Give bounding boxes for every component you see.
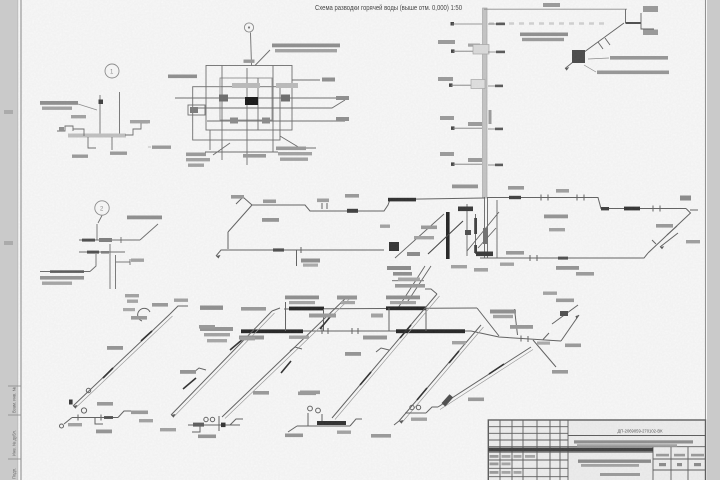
pipe line bottom — [207, 120, 305, 122]
note text right of valve row2 — [597, 71, 669, 75]
diagonal c — [467, 212, 499, 251]
towel rail zigzag left — [57, 126, 73, 131]
label cluster below row2 — [393, 272, 412, 276]
stamp vertical main divider — [567, 420, 569, 480]
D3 mid fixture hook — [376, 348, 389, 352]
vertical pipe left of bar — [466, 204, 468, 256]
stamp vertical v3 — [522, 420, 524, 480]
D1 mid label d15 — [107, 346, 123, 350]
D1 top hook — [170, 306, 188, 314]
valve blob on bottom run — [273, 248, 284, 251]
wire: row2 extension right — [471, 331, 561, 341]
D4 mid label — [468, 398, 484, 402]
label fork top — [643, 6, 658, 12]
mini grid label stadia — [656, 454, 669, 457]
fixture group F3 — [288, 406, 362, 432]
fitting blob top — [458, 207, 473, 212]
left margin stamp mark lower — [4, 241, 13, 245]
lower stub — [88, 137, 96, 148]
F4 short line — [405, 412, 426, 414]
connection elbow — [73, 129, 84, 136]
branch floor3 — [438, 77, 503, 89]
valve left blob — [219, 95, 228, 102]
riser mid annotation — [489, 110, 492, 124]
wire: row2 header line — [241, 330, 471, 332]
label bottom right rows — [276, 147, 306, 151]
label branch down — [552, 370, 568, 374]
F3 circles — [308, 406, 313, 411]
node marker circle 2 (basement branch) — [95, 201, 109, 215]
F1 left elbow — [64, 418, 72, 425]
label d20 mid top run — [317, 199, 329, 203]
bypass rectangle — [220, 78, 272, 120]
row1 left text b — [241, 307, 266, 311]
left text block r2 — [204, 333, 230, 336]
dark run row2 right — [396, 329, 465, 333]
wire: fork branch stub — [641, 23, 654, 29]
branch floor4 — [438, 40, 505, 54]
D1 curl fixture — [138, 308, 150, 321]
label cluster inner small — [451, 265, 467, 268]
dark fitting square left — [389, 242, 399, 251]
right outlet leader 2 — [300, 100, 345, 108]
row2 label below left — [240, 337, 255, 340]
F3 branch line — [297, 425, 350, 427]
wire: top-left hook — [236, 197, 252, 205]
D4 arrowhead — [399, 420, 404, 424]
label above right run a — [508, 186, 524, 190]
vertical riser v2 between rows — [323, 309, 325, 331]
valve right blob — [281, 95, 290, 102]
stamp left cell entries row a — [490, 455, 499, 458]
towel rail detail — [57, 92, 148, 150]
label above unit top edge — [244, 60, 255, 63]
mini grid value stadia — [659, 463, 666, 466]
stamp object name row2 — [577, 444, 677, 447]
right mid diag label — [556, 299, 574, 303]
D1 arrowhead — [73, 405, 78, 409]
fixture group F4 — [394, 405, 438, 425]
dashed level line — [489, 22, 607, 25]
wire: long diagonal to mixer — [576, 23, 624, 58]
D2b dark runs — [281, 317, 330, 373]
label St V1-6 — [576, 272, 594, 276]
mini grid value list — [677, 463, 682, 466]
wire: top right corner drop — [625, 9, 627, 23]
label under floor right — [110, 152, 127, 155]
long branch diagonal D3 — [332, 294, 437, 418]
stamp object name row1 — [574, 440, 693, 443]
riser double vertical — [109, 244, 111, 289]
label d15 top-left hook — [231, 195, 244, 199]
D1 inner label — [97, 402, 113, 406]
fixture group F2 — [188, 416, 243, 432]
right outlet leader 3 — [305, 120, 345, 122]
F1 branch line — [72, 417, 118, 419]
svg-text:Взам. инв. №: Взам. инв. № — [12, 387, 17, 413]
D4 dark runs — [417, 351, 459, 400]
tick diag right — [652, 240, 656, 244]
vertical pipe right pair — [496, 200, 498, 258]
bottom diagonal leader — [213, 143, 230, 155]
stamp header dark band — [488, 448, 653, 452]
leader far right — [148, 146, 151, 148]
row1 label middle — [337, 296, 357, 300]
mini grid label list — [674, 454, 685, 457]
tick pair on top run — [321, 203, 323, 209]
F3 vertical — [307, 413, 309, 426]
D2 top hook — [272, 308, 280, 311]
leader from circle — [98, 216, 102, 224]
bottom inner line — [205, 151, 278, 153]
F1 blob — [104, 416, 113, 419]
wire: row1 right drop diagonal — [477, 308, 499, 336]
dark run at step-up — [388, 198, 416, 202]
riser St T3-1 double line — [483, 8, 488, 198]
F1 sub stub — [95, 418, 103, 425]
blobs on right mid diagonal — [560, 311, 568, 316]
F2 branch line — [188, 424, 240, 426]
tick pair row2 middle — [321, 328, 323, 334]
note polotencesushitel row2 — [42, 107, 72, 110]
extension label d40 — [565, 344, 581, 348]
dark run row2 left — [241, 329, 303, 333]
vertical pipe a — [221, 66, 223, 161]
water meter unit detail — [175, 33, 345, 166]
wire: left loop bottom run — [216, 250, 384, 256]
vertical pipe b — [246, 68, 248, 165]
stamp left cell entries row b — [490, 463, 499, 466]
D2 top label — [199, 325, 215, 329]
row1 left text a — [200, 306, 223, 310]
wire: fork dark horizontal — [626, 22, 642, 24]
far right label — [686, 240, 700, 243]
F4 label b — [411, 418, 427, 421]
right scan margin strip — [707, 0, 720, 480]
wire: left loop diagonal — [228, 205, 252, 232]
valve blob on diagonal — [572, 50, 585, 63]
F3 zigzag — [350, 419, 362, 426]
stamp horizontal h3 — [488, 439, 568, 441]
label cluster below row3 — [398, 278, 420, 281]
between-row text a — [309, 314, 336, 318]
D3 low label — [298, 392, 316, 396]
F2 lower stub — [192, 425, 200, 432]
label d25 above valve — [345, 194, 359, 198]
F2 zigzag — [230, 419, 243, 425]
bottom stub left — [209, 130, 211, 150]
wire: left loop vertical — [227, 232, 229, 249]
wire: right rising arrow branch — [561, 315, 579, 341]
D1 hook curve label — [174, 299, 188, 302]
between-row text b — [371, 314, 383, 318]
upper branch line — [79, 239, 140, 241]
label below supply row2 — [42, 282, 72, 285]
label step right — [130, 120, 150, 123]
below row2 text b — [289, 336, 309, 339]
lower branch line — [79, 251, 125, 253]
stamp horizontal h7 left — [488, 467, 568, 469]
label d50 right mid — [336, 96, 349, 100]
stamp vertical v2 — [511, 420, 513, 480]
label below riser pair — [125, 294, 139, 297]
F3 vertical b — [321, 414, 323, 421]
note: water meter title row2 — [275, 49, 337, 52]
F3 label b — [300, 391, 320, 395]
outer rectangle — [206, 66, 292, 131]
label above right run b — [556, 189, 569, 193]
stamp vertical v4 — [536, 420, 538, 480]
note text podvodka upper row — [520, 33, 568, 37]
vertical riser v1 between rows — [285, 302, 287, 331]
F1 label d — [139, 419, 153, 422]
thick dark riser bar — [446, 212, 450, 259]
F1 dark square — [69, 400, 73, 405]
vertical pipe x475 — [475, 214, 477, 254]
St V1-5 riser stub — [515, 309, 518, 335]
dark runs on lower shelf — [601, 207, 609, 210]
right sheet frame line — [705, 0, 707, 480]
label small d15 — [131, 259, 144, 262]
F1 label a — [96, 430, 112, 434]
dark valve square — [99, 100, 104, 105]
side stub — [116, 261, 131, 263]
stamp horizontal h1 — [488, 426, 568, 428]
D4 upper label — [452, 341, 466, 344]
D2b mid fixture hook — [290, 347, 302, 351]
diagonal d short — [478, 228, 496, 248]
label St V1-2 under bottom run — [301, 259, 320, 263]
long branch diagonal D2 — [171, 311, 272, 415]
F1 label c — [131, 411, 148, 415]
stamp vertical v1 — [499, 420, 501, 480]
right stepped pipe — [125, 123, 148, 135]
F3 label a — [285, 434, 303, 438]
mini grid vertical c — [687, 447, 689, 480]
label far right — [152, 146, 171, 149]
left frame divider ticks — [8, 385, 21, 387]
left text block r3 — [207, 339, 227, 342]
label cluster above — [452, 185, 478, 189]
note text right of valve row1 — [610, 56, 668, 60]
label cluster bottom row — [395, 284, 425, 288]
valve blob right top run — [509, 196, 521, 199]
label on extension — [510, 325, 533, 329]
tick on diagonal — [598, 42, 603, 49]
tick on extension — [520, 336, 522, 342]
D2 mid fixture hook — [194, 368, 206, 372]
right mid diagonal branch — [552, 305, 578, 324]
valve blob right bottom — [558, 257, 568, 260]
mini grid vertical a — [652, 447, 654, 480]
stamp horizontal h8 left — [488, 476, 568, 478]
F2 blob — [193, 423, 204, 427]
dark fitting run — [82, 239, 95, 242]
tick pair right bottom run — [529, 255, 531, 261]
label below supply row1 — [40, 276, 84, 280]
dark run row1 right — [386, 306, 426, 310]
wire: right loop top run — [487, 198, 686, 209]
note polotencesushitel row1 — [40, 101, 78, 105]
stamp outer border — [488, 420, 705, 480]
riser pipe pair — [99, 95, 101, 136]
small branch mid extension — [543, 333, 549, 340]
F1 zigzag — [118, 411, 132, 418]
valve blob on top run — [347, 209, 358, 213]
long branch diagonal D1 — [73, 314, 170, 406]
F2 dark dot — [221, 423, 226, 428]
label St V1-4 mid right — [506, 251, 524, 255]
label St V1-5 top row1 — [490, 310, 516, 314]
extension label d25 — [537, 342, 550, 345]
label d15 inside left loop — [262, 218, 279, 222]
label inside right loop b — [549, 228, 565, 231]
F4 zigzag — [426, 407, 438, 413]
vertical pipe c — [257, 78, 259, 130]
F1 ticks — [77, 415, 79, 421]
wire: top horizontal main — [484, 8, 627, 10]
St V1-5 connector from F4 — [438, 347, 531, 407]
below row2 text c — [363, 336, 387, 340]
wire: fork branch upper — [640, 13, 642, 23]
left inlet stub — [175, 97, 193, 99]
diagonal a — [395, 214, 444, 258]
basement branch detail — [40, 216, 158, 290]
label cluster below row1 — [387, 266, 411, 270]
mini grid value listov — [694, 463, 701, 466]
F1 small circle left — [60, 424, 64, 428]
F2 label b — [160, 428, 176, 431]
label 15,0 above top line — [543, 3, 560, 7]
stamp bottom centre text — [600, 473, 640, 476]
right inner diagonal arrow — [660, 233, 678, 247]
diagonal b — [428, 221, 463, 254]
label d25 between clusters — [543, 292, 557, 295]
fitting blob mid — [483, 228, 487, 244]
label from vvod left — [168, 75, 197, 79]
F3 label c — [337, 431, 351, 434]
row1 labels above left — [285, 296, 319, 300]
pipe line lower — [193, 107, 300, 109]
connector down to lower band b — [406, 266, 431, 304]
label underline — [392, 280, 424, 281]
elbow from supply — [90, 254, 96, 272]
stub below bottom run — [296, 250, 298, 266]
branch floor1 — [440, 152, 503, 166]
F4 circles — [410, 405, 414, 409]
inner rectangle — [193, 87, 280, 140]
wire: right loop bottom run — [480, 253, 648, 258]
diagonal up to label — [140, 224, 158, 240]
leader to note1 — [588, 58, 609, 59]
riser continuation into band — [484, 197, 486, 258]
left margin stamp mark upper — [4, 110, 13, 114]
stamp left cell entries row c — [490, 471, 499, 474]
D2 arrowhead — [171, 414, 176, 418]
mini grid vertical b — [670, 447, 672, 480]
fixture group F1 — [60, 388, 133, 428]
D3 dark runs — [360, 325, 411, 385]
F2 circles — [204, 417, 208, 421]
label under floor left — [72, 155, 88, 158]
D1 upper area labels — [152, 303, 168, 307]
svg-text:Подп.: Подп. — [12, 468, 17, 479]
right side small stub b — [667, 226, 677, 235]
gray blob row — [407, 252, 420, 256]
label under right bottom run — [556, 266, 579, 270]
long branch diagonal D2b — [222, 296, 348, 417]
corner label blob — [680, 196, 691, 201]
label St V1-5 top row2 — [493, 315, 513, 318]
long branch diagonal D4 — [399, 325, 481, 421]
arrowhead bottom-left — [216, 255, 221, 259]
vertical pipe d — [272, 66, 274, 153]
label bottom centre — [243, 154, 266, 158]
pipe line upper — [180, 97, 345, 99]
stamp vertical v6 — [559, 420, 561, 480]
F1 washbasin circle — [81, 408, 86, 413]
svg-text:Инв. № дубл.: Инв. № дубл. — [12, 430, 17, 456]
node marker circle 4 (water meter unit) — [244, 23, 253, 32]
D3 mid label — [345, 352, 361, 356]
small fixture box — [59, 127, 64, 131]
label bottom left col — [186, 153, 206, 157]
tick on bottom run — [300, 247, 302, 253]
F3 dark run — [317, 421, 346, 425]
branch floor5 — [451, 22, 506, 26]
junction dot — [465, 230, 471, 235]
long supply line — [40, 271, 90, 273]
fitting blob lower — [230, 118, 238, 124]
tick pairs right top run — [540, 195, 542, 201]
branch down-right — [533, 340, 556, 367]
arrowhead diagonal end — [565, 67, 569, 71]
riser floor branches — [438, 22, 505, 166]
stub up from branch — [96, 224, 98, 240]
vertical riser v4 between rows — [425, 308, 427, 331]
F1 label b — [68, 423, 82, 426]
dark run row1 left — [289, 307, 324, 311]
note text podvodka lower row — [522, 38, 564, 41]
left sheet frame line — [20, 0, 22, 480]
branch floor2 — [440, 116, 503, 130]
label top right of node2 row — [127, 216, 162, 220]
connector down to lower band a — [398, 266, 425, 308]
mini grid horizontal — [653, 458, 706, 460]
F2 vertical — [218, 416, 220, 431]
leader to note2 — [584, 65, 596, 72]
F2 label a — [198, 435, 216, 439]
stamp right horizontal code cell bottom — [568, 435, 706, 437]
fitting blob bottom — [476, 252, 493, 257]
tick — [120, 237, 122, 243]
F4 label a — [371, 434, 391, 438]
wire: right loop right side — [648, 209, 691, 254]
leader to title note — [255, 50, 270, 66]
vertical riser v3 between rows — [388, 308, 390, 331]
central junction cluster St V1-1 — [389, 197, 499, 308]
label d40 right low — [336, 117, 349, 121]
stamp horizontal full — [488, 446, 706, 448]
mini grid label listov — [691, 454, 704, 457]
F4 end hook — [394, 421, 399, 425]
label inside right loop a — [544, 215, 568, 219]
label on left top run — [263, 200, 276, 204]
mini grid horizontal b — [653, 469, 706, 471]
stamp sheet name text — [578, 460, 651, 463]
label fork stub — [643, 30, 658, 36]
water meter dark body — [245, 97, 258, 105]
